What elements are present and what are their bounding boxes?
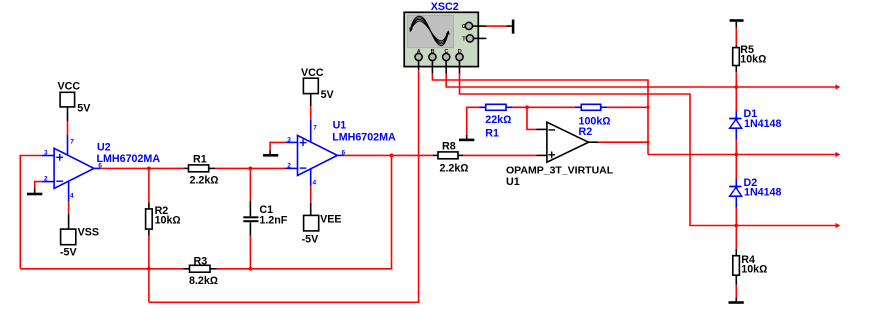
node 100k right / riser: [647, 106, 650, 109]
svg-text:LMH6702MA: LMH6702MA: [332, 132, 396, 144]
wire U1 +input to ground: [270, 142, 285, 150]
op-amp U1 LMH6702MA: [285, 120, 396, 187]
svg-text:2: 2: [287, 163, 291, 170]
wire scope A probe: [418, 61, 420, 70]
wire output node row to arrow: [648, 154, 837, 156]
svg-text:10kΩ: 10kΩ: [740, 53, 766, 65]
node R1-left / R2 top: [147, 167, 151, 171]
wire U2 VCC supply: [67, 107, 69, 135]
svg-text:8.2kΩ: 8.2kΩ: [189, 275, 218, 287]
wire scope C probe: [446, 61, 736, 87]
resistor R1 22k: [479, 104, 512, 139]
wire R5 to C-row junction: [735, 72, 737, 87]
arrow output row: [836, 152, 841, 157]
node D2 / R4 / D row: [734, 224, 738, 228]
node U1 output / feedback riser: [390, 154, 394, 158]
svg-text:2: 2: [44, 176, 48, 183]
svg-text:R1: R1: [485, 127, 499, 139]
svg-text:R1: R1: [193, 153, 207, 165]
wire 22k input branch with ground: [467, 107, 479, 135]
wire R4 to bottom ground: [735, 285, 737, 298]
arrow D row: [836, 223, 841, 228]
wire scope G to terminator: [473, 25, 512, 27]
svg-text:VEE: VEE: [320, 213, 341, 225]
wire junction to D1: [735, 87, 737, 111]
svg-text:G: G: [462, 24, 466, 30]
wire D1 to output row junction: [735, 140, 737, 155]
svg-text:10kΩ: 10kΩ: [155, 215, 181, 227]
svg-text:22kΩ: 22kΩ: [485, 114, 511, 126]
svg-text:U1: U1: [333, 120, 347, 132]
resistor R2: [146, 202, 181, 235]
wire 22k to 100k row: [513, 106, 575, 108]
resistor R1: [183, 153, 218, 186]
wire junction to D2: [735, 155, 737, 180]
svg-text:4: 4: [70, 193, 74, 200]
diode D2: [729, 177, 782, 208]
ground at 22k input: [459, 135, 474, 140]
capacitor C1: [243, 201, 287, 236]
wire U2 output row / R1 row: [100, 167, 285, 169]
svg-text:D: D: [458, 49, 462, 55]
wire opamp output to riser: [598, 141, 648, 143]
wire R2 branch down to bottom: [148, 168, 150, 302]
ground at U1 +input: [263, 150, 278, 155]
svg-text:U1: U1: [506, 176, 520, 188]
svg-text:5V: 5V: [321, 89, 335, 101]
wire U1 VCC supply: [310, 94, 312, 120]
resistor R3: [184, 256, 219, 288]
resistor R5: [733, 44, 767, 72]
svg-text:4: 4: [313, 179, 317, 186]
svg-text:1.2nF: 1.2nF: [259, 215, 287, 227]
svg-text:VCC: VCC: [301, 67, 324, 79]
power VEE box U1: [302, 213, 342, 245]
svg-text:2.2kΩ: 2.2kΩ: [190, 174, 219, 186]
wire scope B probe: [432, 61, 648, 155]
wire junction down to opamp - input: [527, 107, 536, 129]
svg-text:10kΩ: 10kΩ: [741, 263, 767, 275]
svg-text:OPAMP_3T_VIRTUAL: OPAMP_3T_VIRTUAL: [506, 165, 614, 177]
wire U2 -input to ground: [35, 182, 42, 189]
wire U1 output row to R8: [344, 154, 433, 156]
power VSS box U2: [60, 226, 99, 258]
resistor R8: [433, 140, 469, 174]
svg-text:VCC: VCC: [58, 81, 81, 93]
svg-text:-5V: -5V: [60, 246, 78, 258]
resistor R4: [733, 249, 768, 285]
wire C1 branch: [249, 168, 251, 268]
node R2 bottom / R3 row: [147, 267, 151, 271]
ground at U2 -input: [27, 189, 42, 195]
svg-text:B: B: [431, 49, 435, 55]
node 22k-100k / inverting input: [525, 105, 529, 109]
oscilloscope XSC2: [404, 1, 478, 67]
svg-text:LMH6702MA: LMH6702MA: [97, 153, 161, 165]
wire D2 to D-row junction: [735, 208, 737, 226]
op-amp U2: [42, 135, 160, 202]
svg-text:R8: R8: [442, 140, 456, 152]
svg-text:7: 7: [70, 139, 74, 146]
wire scope T stub: [474, 37, 487, 39]
wire junction to R4: [735, 226, 737, 249]
diode D1: [729, 108, 782, 139]
node R5 / D1 / C row: [734, 85, 738, 89]
svg-text:3: 3: [287, 137, 291, 144]
wire U2 VSS supply: [68, 202, 70, 229]
wire R5 top: [735, 28, 737, 46]
svg-text:5V: 5V: [77, 102, 91, 114]
node R1-right / C1 top: [249, 167, 253, 171]
svg-text:XSC2: XSC2: [431, 1, 459, 13]
svg-text:3: 3: [44, 150, 48, 157]
wire C row to arrow: [736, 86, 836, 88]
svg-text:A: A: [417, 49, 421, 55]
power VCC box U1: [301, 67, 335, 101]
wire U2 +input to left rail: [20, 156, 42, 269]
svg-text:R2: R2: [579, 126, 593, 138]
wire bottom run to scope A: [149, 70, 419, 302]
wire R3 row left: [20, 268, 183, 270]
node C1 bottom / R3 row: [249, 267, 253, 271]
resistor R2 100k: [575, 104, 611, 138]
wire D row to arrow: [736, 225, 836, 227]
svg-text:C: C: [444, 49, 448, 55]
ground bar bottom of R4: [729, 297, 744, 302]
terminator bar at scope G: [512, 20, 515, 34]
wire R3 row right to feedback riser: [217, 155, 392, 268]
svg-text:VSS: VSS: [78, 226, 99, 238]
svg-text:2.2kΩ: 2.2kΩ: [440, 162, 469, 174]
svg-text:U2: U2: [97, 142, 111, 154]
wire scope D probe: [460, 61, 737, 226]
node opamp output / riser: [647, 141, 650, 144]
svg-text:1N4148: 1N4148: [744, 118, 781, 130]
svg-text:1N4148: 1N4148: [744, 186, 781, 198]
wire 100k to output riser: [607, 106, 648, 108]
wire U1 VEE supply: [310, 186, 312, 215]
node D1 / D2 / output row: [734, 153, 738, 157]
svg-text:R3: R3: [194, 256, 208, 268]
power VCC box U2: [58, 81, 92, 115]
op-amp OPAMP_3T_VIRTUAL U1: [506, 122, 614, 188]
arrow C row: [836, 84, 841, 89]
wire R8 to opamp + input: [463, 154, 536, 156]
ground bar top of R5: [730, 21, 744, 28]
svg-text:-5V: -5V: [302, 234, 320, 246]
svg-text:7: 7: [313, 125, 317, 132]
